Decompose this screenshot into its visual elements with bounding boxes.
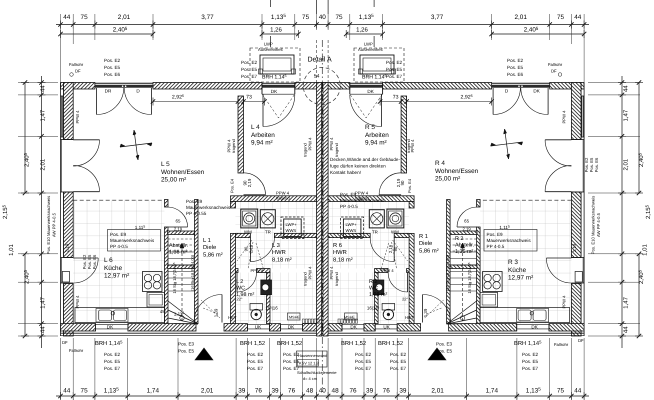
svg-text:UK: UK bbox=[255, 325, 262, 330]
svg-text:tragend: tragend bbox=[303, 143, 308, 157]
svg-text:(16 Stg 18,70|24,00): (16 Stg 18,70|24,00) bbox=[445, 254, 450, 291]
svg-text:1,01: 1,01 bbox=[8, 244, 15, 256]
svg-text:DK: DK bbox=[271, 89, 278, 94]
svg-text:22°: 22° bbox=[402, 297, 408, 302]
svg-text:1,36 m²: 1,36 m² bbox=[169, 250, 187, 256]
svg-text:Pos. E5: Pos. E5 bbox=[355, 359, 372, 364]
svg-text:Küche: Küche bbox=[104, 265, 123, 272]
svg-text:Pos. E9: Pos. E9 bbox=[110, 232, 127, 237]
svg-text:tragend: tragend bbox=[276, 195, 290, 200]
svg-text:5,86 m²: 5,86 m² bbox=[419, 247, 439, 254]
svg-text:1,98 m²: 1,98 m² bbox=[369, 292, 387, 298]
svg-text:9,94 m²: 9,94 m² bbox=[251, 140, 273, 147]
svg-text:DK: DK bbox=[107, 325, 114, 330]
svg-text:DF: DF bbox=[551, 69, 557, 74]
svg-text:Pos. E2: Pos. E2 bbox=[522, 352, 539, 357]
svg-text:HWR: HWR bbox=[333, 250, 347, 256]
svg-text:73: 73 bbox=[393, 95, 399, 101]
svg-text:Pos. E5: Pos. E5 bbox=[507, 65, 524, 70]
svg-text:LWP: LWP bbox=[364, 42, 373, 47]
svg-text:Fallrohr: Fallrohr bbox=[69, 62, 84, 67]
svg-text:75: 75 bbox=[557, 14, 565, 21]
svg-text:R 1: R 1 bbox=[419, 234, 428, 240]
svg-text:DK: DK bbox=[350, 325, 357, 330]
svg-text:DF: DF bbox=[578, 338, 584, 343]
svg-text:25,00 m²: 25,00 m² bbox=[435, 176, 460, 183]
svg-text:WWS: WWS bbox=[286, 228, 297, 233]
svg-text:(16 Stg 18,70|24,00): (16 Stg 18,70|24,00) bbox=[190, 254, 195, 291]
svg-text:WC: WC bbox=[369, 286, 378, 292]
svg-text:1,39: 1,39 bbox=[423, 308, 428, 317]
svg-text:Diele: Diele bbox=[203, 244, 216, 251]
svg-text:PPW 4: PPW 4 bbox=[308, 266, 313, 280]
svg-text:5,86 m²: 5,86 m² bbox=[203, 251, 223, 258]
svg-text:22°: 22° bbox=[236, 297, 242, 302]
svg-text:TR: TR bbox=[372, 230, 378, 235]
svg-text:HET: HET bbox=[228, 315, 237, 320]
svg-text:Pos. E2: Pos. E2 bbox=[247, 352, 264, 357]
svg-text:MSHE: MSHE bbox=[344, 316, 355, 320]
svg-text:16 Stg 18,7|24,05: 16 Stg 18,7|24,05 bbox=[172, 262, 177, 293]
svg-text:Pos. E2: Pos. E2 bbox=[386, 60, 403, 65]
svg-text:DK: DK bbox=[367, 89, 374, 94]
svg-text:Pos. E7: Pos. E7 bbox=[390, 366, 407, 371]
svg-text:2,19: 2,19 bbox=[572, 243, 577, 252]
svg-text:Pos. E3: Pos. E3 bbox=[436, 342, 453, 347]
svg-text:Pos. E4: Pos. E4 bbox=[407, 178, 412, 193]
svg-text:PPW 4: PPW 4 bbox=[410, 139, 415, 153]
svg-text:1,26: 1,26 bbox=[270, 27, 282, 34]
svg-text:LWP+: LWP+ bbox=[346, 222, 358, 227]
svg-text:L 3: L 3 bbox=[272, 242, 280, 249]
svg-text:PPW 4: PPW 4 bbox=[75, 295, 80, 309]
svg-text:73: 73 bbox=[246, 95, 252, 101]
svg-text:tragend: tragend bbox=[334, 272, 339, 286]
svg-text:75: 75 bbox=[81, 14, 89, 21]
svg-text:tragend: tragend bbox=[231, 139, 236, 153]
svg-text:44: 44 bbox=[40, 326, 47, 333]
svg-text:1,47: 1,47 bbox=[623, 109, 630, 121]
svg-text:DF: DF bbox=[62, 340, 68, 345]
svg-text:R 4: R 4 bbox=[435, 160, 445, 167]
svg-text:Abstellr.: Abstellr. bbox=[455, 243, 474, 249]
svg-text:Pos. E6: Pos. E6 bbox=[594, 157, 599, 172]
svg-text:Pos. E6: Pos. E6 bbox=[92, 254, 97, 269]
svg-text:d= 4 cm: d= 4 cm bbox=[303, 376, 317, 381]
svg-text:PP 4-0.5: PP 4-0.5 bbox=[110, 244, 128, 249]
svg-text:39: 39 bbox=[271, 388, 279, 395]
svg-text:DK: DK bbox=[531, 325, 538, 330]
svg-text:9,94 m²: 9,94 m² bbox=[365, 140, 387, 147]
svg-text:Mauerwerksnachweis: Mauerwerksnachweis bbox=[186, 205, 231, 210]
svg-text:Pos. E5: Pos. E5 bbox=[241, 67, 258, 72]
svg-text:3,77: 3,77 bbox=[431, 14, 444, 21]
svg-text:1,74: 1,74 bbox=[486, 388, 499, 395]
svg-text:Mauerwerksnachweis: Mauerwerksnachweis bbox=[110, 238, 155, 243]
svg-text:2,01: 2,01 bbox=[201, 388, 214, 395]
svg-text:1,47: 1,47 bbox=[623, 296, 630, 308]
svg-text:1,47: 1,47 bbox=[40, 109, 47, 121]
svg-text:25,00 m²: 25,00 m² bbox=[161, 177, 186, 184]
svg-text:Fallrohr: Fallrohr bbox=[554, 342, 569, 347]
svg-text:PPW 4: PPW 4 bbox=[251, 268, 264, 273]
svg-text:R 6: R 6 bbox=[333, 242, 342, 249]
svg-text:DF: DF bbox=[75, 69, 81, 74]
svg-text:Pos. E5: Pos. E5 bbox=[390, 359, 407, 364]
svg-text:tragend: tragend bbox=[303, 272, 308, 286]
svg-text:39: 39 bbox=[366, 388, 374, 395]
svg-text:44: 44 bbox=[623, 326, 630, 333]
svg-text:76: 76 bbox=[349, 388, 357, 395]
svg-text:Hausennenwand: Hausennenwand bbox=[298, 353, 327, 358]
svg-text:tragend: tragend bbox=[406, 139, 411, 153]
svg-text:BRH 1,145: BRH 1,145 bbox=[95, 339, 123, 347]
svg-text:48: 48 bbox=[306, 388, 314, 395]
svg-text:Pos. E2: Pos. E2 bbox=[355, 352, 372, 357]
svg-text:40: 40 bbox=[319, 14, 327, 21]
svg-text:R 2: R 2 bbox=[455, 236, 463, 242]
svg-text:L 6: L 6 bbox=[104, 257, 113, 264]
svg-text:Außeneinheit: Außeneinheit bbox=[258, 47, 284, 52]
svg-text:BRH 1,145: BRH 1,145 bbox=[514, 339, 542, 347]
svg-text:2,19: 2,19 bbox=[463, 227, 472, 232]
svg-text:AW PP 4-0.5: AW PP 4-0.5 bbox=[52, 212, 57, 237]
svg-text:76: 76 bbox=[255, 388, 263, 395]
svg-text:Pos. E2: Pos. E2 bbox=[507, 58, 524, 63]
svg-text:2,19: 2,19 bbox=[249, 244, 254, 253]
svg-text:1,39: 1,39 bbox=[214, 308, 219, 317]
svg-text:8,18 m²: 8,18 m² bbox=[272, 256, 292, 263]
svg-text:LWP+: LWP+ bbox=[286, 222, 298, 227]
svg-text:75: 75 bbox=[557, 388, 565, 395]
svg-text:L 2: L 2 bbox=[236, 279, 243, 285]
svg-text:Pos. E7: Pos. E7 bbox=[104, 366, 121, 371]
svg-text:Abstellr.: Abstellr. bbox=[169, 243, 188, 249]
svg-text:Pos. E2: Pos. E2 bbox=[390, 352, 407, 357]
svg-text:MSHE: MSHE bbox=[289, 316, 300, 320]
svg-text:Außeneinheit: Außeneinheit bbox=[358, 47, 384, 52]
svg-text:HWR: HWR bbox=[272, 250, 286, 256]
svg-text:HET: HET bbox=[405, 315, 414, 320]
svg-text:Pos. E5: Pos. E5 bbox=[104, 65, 121, 70]
svg-text:PPW 4: PPW 4 bbox=[308, 137, 313, 151]
svg-text:DK: DK bbox=[533, 89, 540, 94]
svg-text:2,01: 2,01 bbox=[623, 158, 630, 170]
svg-text:2,01: 2,01 bbox=[118, 14, 131, 21]
svg-text:PP 4-0.55: PP 4-0.55 bbox=[186, 211, 207, 216]
svg-text:DR: DR bbox=[105, 89, 112, 94]
svg-text:76: 76 bbox=[288, 388, 296, 395]
svg-text:Pos. E7: Pos. E7 bbox=[522, 366, 539, 371]
svg-text:76: 76 bbox=[383, 388, 391, 395]
svg-text:Schallschluckelemente: Schallschluckelemente bbox=[297, 370, 337, 375]
svg-text:Fallrohr: Fallrohr bbox=[548, 62, 563, 67]
svg-text:1,47: 1,47 bbox=[40, 296, 47, 308]
svg-text:Pos. E5: Pos. E5 bbox=[522, 359, 539, 364]
svg-text:Kontakt haben!: Kontakt haben! bbox=[330, 170, 361, 175]
svg-text:12,97 m²: 12,97 m² bbox=[508, 275, 533, 282]
svg-text:Pos. E7: Pos. E7 bbox=[241, 74, 258, 79]
svg-text:Pos. E4: Pos. E4 bbox=[230, 178, 235, 193]
svg-text:Decken,Wände and.der Gebäude-: Decken,Wände and.der Gebäude- bbox=[330, 157, 400, 162]
svg-text:2,19: 2,19 bbox=[174, 227, 183, 232]
svg-text:2,01: 2,01 bbox=[40, 158, 47, 170]
svg-text:2,01: 2,01 bbox=[431, 388, 444, 395]
svg-text:Pos. E5: Pos. E5 bbox=[386, 67, 403, 72]
svg-text:90: 90 bbox=[393, 246, 398, 251]
svg-text:2,19: 2,19 bbox=[388, 244, 393, 253]
svg-text:Pos. E7: Pos. E7 bbox=[386, 74, 403, 79]
svg-text:BRH 1,52: BRH 1,52 bbox=[240, 340, 265, 347]
svg-text:Pos. E2: Pos. E2 bbox=[104, 352, 121, 357]
svg-text:fuge dürfen keinen direkten: fuge dürfen keinen direkten bbox=[330, 164, 386, 169]
svg-text:54: 54 bbox=[314, 73, 320, 79]
svg-text:Fallrohr: Fallrohr bbox=[69, 348, 84, 353]
svg-text:1,35 m²: 1,35 m² bbox=[455, 249, 473, 255]
svg-text:PPW 4: PPW 4 bbox=[562, 110, 567, 124]
svg-text:75: 75 bbox=[335, 14, 343, 21]
svg-text:LWP: LWP bbox=[264, 42, 273, 47]
svg-text:65: 65 bbox=[176, 219, 181, 224]
svg-text:2,19: 2,19 bbox=[65, 243, 70, 252]
svg-text:65: 65 bbox=[464, 219, 469, 224]
svg-text:44: 44 bbox=[40, 85, 47, 92]
svg-text:45°: 45° bbox=[160, 309, 167, 314]
svg-text:UK: UK bbox=[383, 325, 390, 330]
svg-text:R 3: R 3 bbox=[508, 259, 518, 266]
svg-text:39: 39 bbox=[238, 388, 246, 395]
svg-text:R 5: R 5 bbox=[365, 124, 375, 131]
svg-text:PP 4-0.5: PP 4-0.5 bbox=[340, 204, 358, 209]
svg-text:44: 44 bbox=[574, 14, 582, 21]
svg-text:Arbeiten: Arbeiten bbox=[251, 132, 275, 139]
svg-text:44: 44 bbox=[63, 388, 71, 395]
svg-text:DK: DK bbox=[288, 325, 295, 330]
svg-text:Pos. E7: Pos. E7 bbox=[247, 366, 264, 371]
svg-text:TR: TR bbox=[265, 230, 271, 235]
svg-text:R 2: R 2 bbox=[369, 279, 377, 285]
svg-text:39: 39 bbox=[399, 388, 407, 395]
svg-text:3,77: 3,77 bbox=[201, 14, 214, 21]
svg-text:Arbeiten: Arbeiten bbox=[365, 132, 389, 139]
svg-text:BRH 1,145: BRH 1,145 bbox=[362, 74, 387, 81]
svg-text:2,01: 2,01 bbox=[514, 14, 527, 21]
svg-text:PP 4-0.5: PP 4-0.5 bbox=[487, 244, 505, 249]
svg-text:WWS: WWS bbox=[346, 228, 357, 233]
svg-text:tragend: tragend bbox=[355, 195, 369, 200]
svg-text:L 5: L 5 bbox=[161, 161, 170, 168]
svg-text:1,01: 1,01 bbox=[642, 244, 649, 256]
svg-text:Wohnen/Essen: Wohnen/Essen bbox=[435, 168, 479, 175]
svg-text:1,74: 1,74 bbox=[147, 388, 160, 395]
svg-text:Pos. E6: Pos. E6 bbox=[507, 72, 524, 77]
svg-text:Pos. E9: Pos. E9 bbox=[186, 199, 203, 204]
svg-text:Pos. E5: Pos. E5 bbox=[104, 359, 121, 364]
svg-text:1,26: 1,26 bbox=[356, 27, 368, 34]
svg-text:Pos. E2: Pos. E2 bbox=[241, 60, 258, 65]
svg-text:44: 44 bbox=[623, 85, 630, 92]
svg-text:WM: WM bbox=[391, 230, 399, 235]
svg-text:PPW 4: PPW 4 bbox=[381, 268, 394, 273]
svg-text:Wohnen/Essen: Wohnen/Essen bbox=[161, 169, 205, 176]
svg-text:44: 44 bbox=[63, 14, 71, 21]
svg-text:Pos. E6: Pos. E6 bbox=[104, 72, 121, 77]
svg-text:115|16: 115|16 bbox=[265, 305, 278, 310]
svg-text:Pos. E9: Pos. E9 bbox=[487, 232, 504, 237]
svg-text:Pos. E5: Pos. E5 bbox=[178, 349, 195, 354]
svg-text:2,19: 2,19 bbox=[396, 178, 401, 187]
svg-text:L 1: L 1 bbox=[203, 238, 211, 244]
svg-text:12,97 m²: 12,97 m² bbox=[104, 273, 129, 280]
svg-text:WC: WC bbox=[236, 286, 245, 292]
svg-text:75: 75 bbox=[302, 14, 310, 21]
svg-text:Mauerwerksnachweis: Mauerwerksnachweis bbox=[487, 238, 532, 243]
svg-text:Pos. E5: Pos. E5 bbox=[247, 359, 264, 364]
svg-text:Pos. E10 Mauerwerksnachweis: Pos. E10 Mauerwerksnachweis bbox=[591, 196, 596, 254]
svg-text:Detail A: Detail A bbox=[308, 56, 332, 64]
svg-text:BRH 1,145: BRH 1,145 bbox=[262, 74, 287, 81]
svg-text:Küche: Küche bbox=[508, 267, 527, 274]
svg-text:KSV 12 1,8: KSV 12 1,8 bbox=[299, 361, 319, 366]
svg-text:Pos. E7: Pos. E7 bbox=[355, 366, 372, 371]
svg-text:2,19: 2,19 bbox=[247, 178, 252, 187]
svg-text:Pos. E3: Pos. E3 bbox=[178, 342, 195, 347]
svg-text:BRH 1,52: BRH 1,52 bbox=[341, 340, 366, 347]
svg-text:Diele: Diele bbox=[419, 240, 432, 247]
svg-text:AW PP 4-0.5: AW PP 4-0.5 bbox=[596, 212, 601, 237]
svg-text:48: 48 bbox=[332, 388, 340, 395]
svg-text:8,18 m²: 8,18 m² bbox=[333, 256, 353, 263]
svg-text:PPW 4: PPW 4 bbox=[75, 110, 80, 124]
svg-text:Pos. E5: Pos. E5 bbox=[283, 359, 300, 364]
svg-text:Pos. E10 Mauerwerksnachweis: Pos. E10 Mauerwerksnachweis bbox=[46, 196, 51, 254]
svg-text:16 Stg 18,7|24,05: 16 Stg 18,7|24,05 bbox=[467, 262, 472, 293]
svg-text:BRH 1,52: BRH 1,52 bbox=[277, 340, 302, 347]
svg-text:44: 44 bbox=[574, 388, 582, 395]
svg-text:tragend: tragend bbox=[334, 143, 339, 157]
svg-text:Pos. E2: Pos. E2 bbox=[104, 58, 121, 63]
svg-text:PPW 4: PPW 4 bbox=[562, 295, 567, 309]
svg-text:WM: WM bbox=[244, 230, 252, 235]
svg-text:90: 90 bbox=[400, 180, 405, 185]
svg-text:75: 75 bbox=[81, 388, 89, 395]
svg-text:L 4: L 4 bbox=[251, 124, 260, 131]
svg-text:BRH 1,52: BRH 1,52 bbox=[378, 340, 403, 347]
